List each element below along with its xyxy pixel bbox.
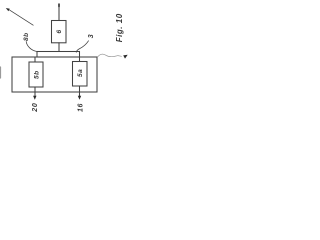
ink blob at stem top: [58, 4, 60, 6]
svg-text:20: 20: [32, 102, 39, 112]
edge mark left border: [0, 67, 2, 78]
right stem bottom: [79, 86, 81, 96]
left arrowhead down: [33, 96, 36, 100]
small arrowhead right: [123, 55, 128, 59]
svg-text:6: 6: [56, 30, 63, 34]
stem above box 6: [58, 4, 60, 21]
svg-text:5b: 5b: [34, 70, 41, 79]
svg-text:16: 16: [78, 103, 85, 112]
left inner box 5b: [29, 62, 43, 87]
leader from 3: [76, 41, 88, 52]
main block rectangle: [12, 57, 97, 92]
svg-text:5a: 5a: [77, 69, 84, 77]
bar on top of main block: [37, 52, 80, 58]
right arrowhead down: [78, 96, 81, 100]
right inner box 5a: [73, 62, 88, 87]
svg-text:Fig. 10: Fig. 10: [115, 13, 124, 42]
left stem bottom: [34, 87, 36, 96]
right stem top: [79, 57, 81, 62]
svg-text:8b: 8b: [23, 32, 30, 41]
squiggle leader from top-right corner: [98, 54, 122, 57]
box 6: [52, 21, 67, 43]
svg-text:3: 3: [88, 34, 95, 38]
arrow pointer top-left: [6, 8, 33, 25]
leader from 8b: [26, 42, 37, 52]
stem box 6 to bar: [58, 43, 60, 52]
left stem top: [34, 57, 36, 62]
